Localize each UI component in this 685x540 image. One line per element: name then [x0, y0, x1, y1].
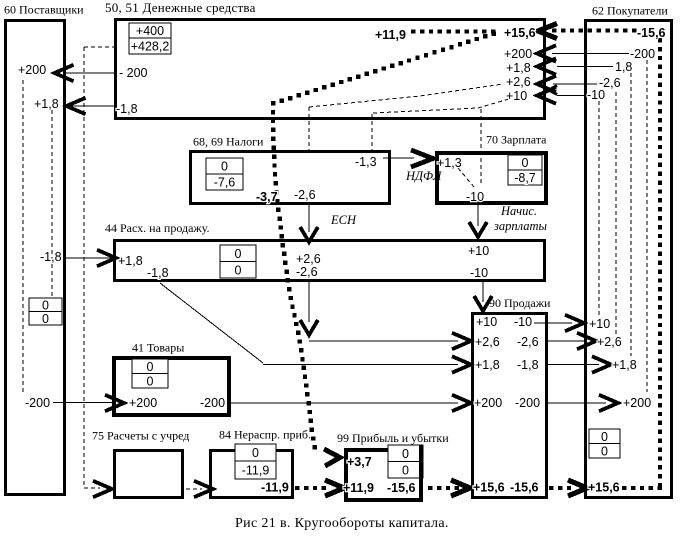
svg-text:+2,6: +2,6: [597, 335, 622, 349]
svg-text:+10: +10: [476, 315, 497, 329]
svg-text:-8,7: -8,7: [514, 171, 536, 185]
svg-text:+1,8: +1,8: [475, 358, 500, 372]
svg-text:0: 0: [522, 156, 529, 170]
svg-text:99 Прибыль и убытки: 99 Прибыль и убытки: [337, 431, 449, 445]
svg-text:Начис.: Начис.: [500, 204, 537, 218]
svg-text:-200: -200: [630, 47, 655, 61]
svg-text:-200: -200: [515, 396, 540, 410]
svg-text:70 Зарплата: 70 Зарплата: [486, 133, 547, 147]
svg-text:-3,7: -3,7: [256, 190, 278, 204]
svg-text:+428,2: +428,2: [131, 40, 170, 54]
svg-text:+1,8: +1,8: [612, 358, 637, 372]
svg-text:+2,6: +2,6: [475, 335, 500, 349]
svg-text:90 Продажи: 90 Продажи: [489, 296, 551, 310]
svg-text:41 Товары: 41 Товары: [132, 341, 184, 355]
svg-text:- 200: - 200: [119, 66, 148, 80]
svg-text:+15,6: +15,6: [588, 481, 620, 495]
svg-text:-7,6: -7,6: [214, 176, 236, 190]
svg-text:-2,6: -2,6: [294, 188, 316, 202]
svg-text:+200: +200: [504, 47, 532, 61]
svg-text:-2,6: -2,6: [517, 335, 539, 349]
svg-text:44 Расх. на продажу.: 44 Расх. на продажу.: [105, 221, 210, 235]
svg-text:0: 0: [252, 446, 259, 460]
svg-text:+200: +200: [474, 396, 502, 410]
svg-text:ЕСН: ЕСН: [330, 213, 357, 227]
svg-text:+200: +200: [129, 396, 157, 410]
svg-text:+15,6: +15,6: [504, 26, 536, 40]
svg-text:-10: -10: [587, 88, 605, 102]
svg-text:0: 0: [601, 444, 608, 458]
svg-text:+11,9: +11,9: [375, 28, 406, 42]
svg-text:+1,3: +1,3: [437, 156, 462, 170]
svg-text:75 Расчеты с учред: 75 Расчеты с учред: [92, 429, 189, 443]
svg-text:0: 0: [235, 247, 242, 261]
svg-text:-200: -200: [200, 396, 225, 410]
svg-text:Рис 21 в. Кругообороты капитал: Рис 21 в. Кругообороты капитала.: [235, 516, 449, 531]
svg-text:+200: +200: [18, 63, 46, 77]
svg-text:-1,8: -1,8: [147, 266, 169, 280]
svg-text:-1,8: -1,8: [517, 358, 539, 372]
svg-text:+2,6: +2,6: [296, 252, 321, 266]
svg-text:+15,6: +15,6: [473, 481, 505, 495]
svg-text:-1,8: -1,8: [116, 102, 138, 116]
svg-text:-200: -200: [25, 396, 50, 410]
svg-text:+1,8: +1,8: [506, 61, 531, 75]
svg-text:84 Нераспр. приб.: 84 Нераспр. приб.: [219, 428, 311, 442]
svg-text:0: 0: [601, 430, 608, 444]
svg-text:-2,6: -2,6: [296, 265, 318, 279]
svg-text:-15,6: -15,6: [637, 26, 666, 40]
svg-text:НДФЛ: НДФЛ: [405, 169, 443, 183]
svg-text:+10: +10: [468, 244, 489, 258]
svg-text:0: 0: [402, 447, 409, 461]
svg-text:0: 0: [147, 374, 154, 388]
svg-text:0: 0: [235, 263, 242, 277]
svg-text:+10: +10: [589, 317, 610, 331]
svg-text:68, 69 Налоги: 68, 69 Налоги: [193, 135, 264, 149]
svg-text:+200: +200: [623, 396, 651, 410]
svg-text:+400: +400: [136, 24, 164, 38]
svg-text:-1,8: -1,8: [40, 250, 62, 264]
svg-text:60 Поставщики: 60 Поставщики: [4, 3, 84, 17]
svg-text:50, 51 Денежные средства: 50, 51 Денежные средства: [105, 0, 256, 15]
svg-text:-10: -10: [470, 266, 488, 280]
svg-text:+10: +10: [506, 89, 527, 103]
svg-text:+1,8: +1,8: [118, 254, 143, 268]
svg-text:0: 0: [147, 360, 154, 374]
svg-text:0: 0: [42, 312, 49, 326]
svg-text:+2,6: +2,6: [506, 75, 531, 89]
svg-text:-1,3: -1,3: [355, 155, 377, 169]
svg-text:зарплаты: зарплаты: [493, 219, 548, 233]
svg-text:-10: -10: [514, 315, 532, 329]
svg-text:+1,8: +1,8: [34, 97, 59, 111]
svg-text:-15,6: -15,6: [510, 481, 539, 495]
svg-text:-11,9: -11,9: [242, 464, 270, 478]
svg-text:62 Покупатели: 62 Покупатели: [592, 4, 668, 18]
svg-text:-15,6: -15,6: [387, 481, 416, 495]
svg-text:+3,7: +3,7: [347, 455, 372, 469]
svg-text:+11,9: +11,9: [343, 481, 374, 495]
svg-text:0: 0: [221, 160, 228, 174]
svg-text:0: 0: [42, 298, 49, 312]
svg-text:-10: -10: [466, 190, 484, 204]
svg-text:0: 0: [402, 463, 409, 477]
svg-text:-11,9: -11,9: [261, 481, 289, 495]
svg-text:1,8: 1,8: [615, 60, 632, 74]
